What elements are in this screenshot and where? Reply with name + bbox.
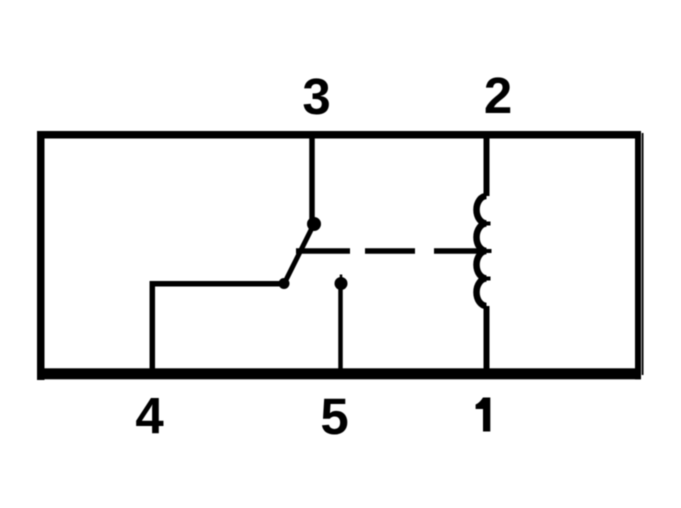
svg-text:4: 4 <box>135 387 164 444</box>
svg-text:2: 2 <box>484 67 512 124</box>
svg-text:5: 5 <box>320 388 348 445</box>
svg-text:3: 3 <box>302 68 330 125</box>
